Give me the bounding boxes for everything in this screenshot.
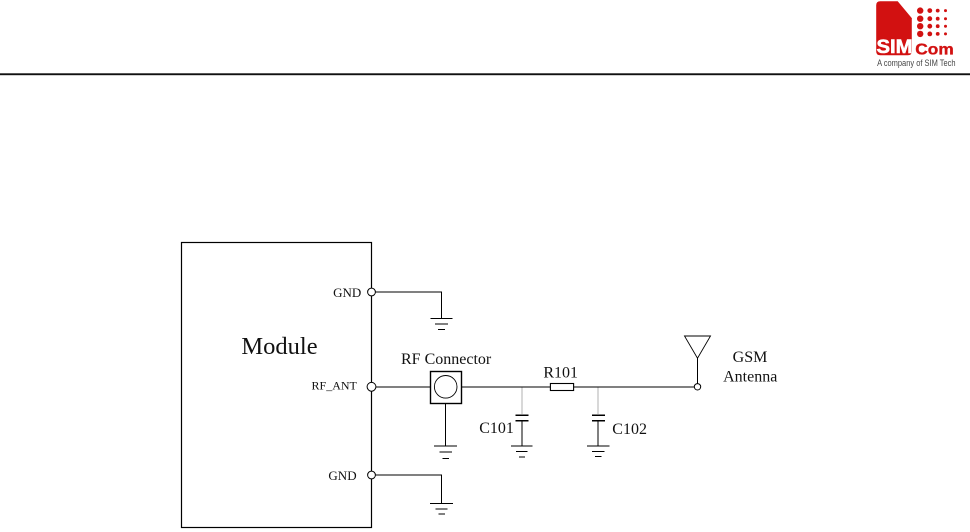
svg-text:RF Connector: RF Connector bbox=[401, 351, 492, 368]
svg-text:GSM: GSM bbox=[733, 349, 768, 366]
svg-text:C102: C102 bbox=[612, 421, 647, 438]
svg-text:C101: C101 bbox=[479, 420, 514, 437]
svg-text:Com: Com bbox=[915, 42, 953, 59]
svg-text:R101: R101 bbox=[543, 364, 578, 381]
svg-text:A company of SIM Tech: A company of SIM Tech bbox=[877, 58, 956, 68]
svg-text:Module: Module bbox=[241, 333, 317, 360]
svg-text:GND: GND bbox=[328, 468, 356, 483]
svg-text:SIM: SIM bbox=[877, 36, 913, 58]
svg-text:RF_ANT: RF_ANT bbox=[312, 378, 358, 392]
svg-text:Antenna: Antenna bbox=[723, 368, 777, 385]
svg-text:GND: GND bbox=[333, 285, 361, 300]
